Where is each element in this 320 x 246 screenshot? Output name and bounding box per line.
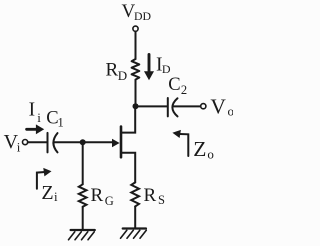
wire node A to C2: [136, 105, 167, 107]
svg-text:R: R: [144, 185, 157, 206]
current ID label: [156, 54, 171, 76]
current ID arrow: [148, 55, 151, 73]
svg-text:i: i: [37, 110, 41, 125]
transistor Q1 drain tap: [121, 106, 135, 132]
resistor RS: [131, 182, 139, 206]
svg-text:G: G: [105, 194, 114, 208]
impedance Zi label: [41, 182, 58, 204]
svg-text:S: S: [158, 193, 165, 207]
impedance Zo label: [193, 137, 214, 161]
svg-text:Z: Z: [193, 137, 206, 161]
node A junction dot: [133, 103, 139, 109]
svg-text:V: V: [210, 94, 226, 118]
wire RG to ground: [82, 207, 84, 230]
wire C2 to Vo terminal: [173, 105, 201, 107]
svg-text:DD: DD: [134, 9, 152, 23]
ground (RS): [123, 227, 146, 229]
wire Vi to C1: [28, 141, 47, 143]
capacitor C1 label: [46, 109, 63, 130]
resistor RD label: [106, 60, 128, 84]
svg-text:2: 2: [181, 83, 187, 97]
node VDD label: [122, 1, 152, 23]
svg-text:Z: Z: [41, 182, 53, 204]
node B junction dot: [80, 139, 86, 145]
node Vo terminal: [201, 104, 206, 109]
node VDD terminal: [133, 26, 138, 31]
impedance Zi arrow: [37, 172, 45, 189]
capacitor C1: [47, 133, 49, 153]
svg-text:o: o: [228, 103, 234, 118]
svg-text:D: D: [118, 68, 127, 83]
transistor Q1 channel bar: [120, 127, 123, 158]
node Vi label: [4, 131, 21, 155]
wire C1 to gate: [54, 141, 113, 143]
transistor Q1 gate arrowhead: [112, 139, 120, 147]
svg-text:C: C: [168, 75, 180, 95]
impedance Zo arrow: [180, 134, 189, 156]
ground (RG): [71, 229, 95, 231]
wire RS to ground: [134, 206, 136, 228]
current Ii label: [29, 100, 42, 125]
capacitor C2 label: [168, 75, 187, 97]
resistor RG label: [91, 185, 114, 208]
current Ii arrow: [27, 128, 38, 131]
transistor Q1 source tap: [121, 153, 135, 183]
svg-text:i: i: [54, 189, 58, 204]
wire node B to RG: [82, 142, 84, 184]
wire RD to node A: [135, 80, 137, 106]
svg-text:1: 1: [58, 116, 64, 130]
svg-text:R: R: [106, 60, 119, 81]
resistor RD: [132, 59, 140, 80]
svg-text:o: o: [207, 147, 214, 162]
svg-text:R: R: [91, 185, 104, 206]
resistor RS label: [144, 185, 166, 207]
node Vo label: [210, 94, 234, 118]
capacitor C2: [167, 98, 169, 116]
svg-text:i: i: [17, 140, 21, 155]
resistor RG: [79, 184, 87, 207]
svg-text:I: I: [29, 100, 35, 121]
wire VDD to RD: [135, 32, 137, 59]
node Vi terminal: [23, 140, 28, 145]
